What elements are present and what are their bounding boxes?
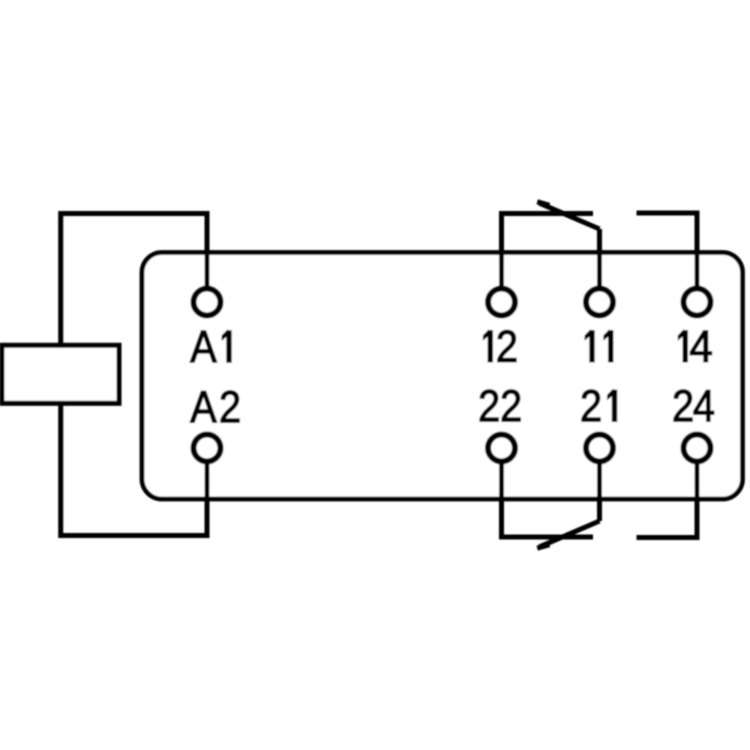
label 21	[582, 390, 617, 422]
terminal circle 12	[488, 289, 515, 316]
label 24	[674, 390, 714, 422]
wire: terminal 21 riser	[597, 458, 602, 521]
wire: terminal 12 riser and NC fixed contact line	[502, 214, 594, 293]
terminal circle A2	[194, 435, 221, 462]
wire: terminal 11 riser	[597, 229, 602, 292]
contact lever pole 2	[540, 521, 600, 547]
lever tip tick pole 2	[537, 545, 549, 549]
contact lever pole 1	[540, 203, 600, 229]
label A2	[190, 391, 239, 423]
coil rectangle	[2, 345, 119, 403]
wire: terminal 14 stub and riser	[637, 213, 698, 292]
label 12	[484, 330, 516, 362]
terminal circle 22	[488, 435, 515, 462]
lever tip tick pole 1	[537, 202, 549, 206]
wire: A2 riser and lower coil loop	[61, 401, 207, 536]
terminal circle 14	[684, 289, 711, 316]
label A1	[190, 331, 231, 362]
terminal circle A1	[194, 289, 221, 316]
wire: terminal 22 riser and NC fixed contact line	[502, 458, 594, 537]
terminal circle 11	[586, 289, 613, 316]
wire: A1 riser and upper coil loop	[61, 214, 207, 348]
relay body outline	[142, 253, 743, 500]
label 22	[480, 390, 520, 422]
label 14	[679, 331, 712, 362]
terminal circle 21	[586, 435, 613, 462]
terminal circle 24	[684, 435, 711, 462]
label 11	[585, 331, 613, 362]
wire: terminal 24 stub and riser	[637, 458, 698, 538]
